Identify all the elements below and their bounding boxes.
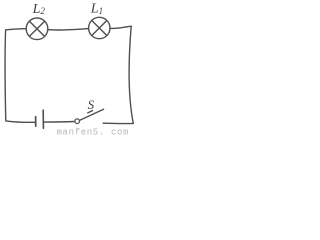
wire top-left (6, 29, 27, 30)
wire battery to switch (44, 121, 74, 124)
switch tick (88, 111, 93, 113)
wire bottom-right (103, 122, 133, 124)
battery long plate (42, 110, 44, 128)
battery short plate (35, 117, 37, 126)
svg-text:L1: L1 (90, 2, 103, 17)
svg-text:S: S (88, 97, 95, 112)
svg-text:manfen5. com: manfen5. com (57, 128, 130, 136)
svg-text:L2: L2 (32, 2, 46, 17)
switch S blade (80, 109, 104, 120)
wire bottom-left to battery (6, 121, 35, 122)
wire right vertical (129, 26, 133, 123)
wire between lamps (48, 29, 89, 31)
wire top-right (110, 26, 131, 28)
wire left vertical (4, 30, 7, 121)
switch pivot circle (75, 119, 80, 124)
lamp L2 (26, 18, 48, 40)
lamp L1 (89, 17, 110, 38)
